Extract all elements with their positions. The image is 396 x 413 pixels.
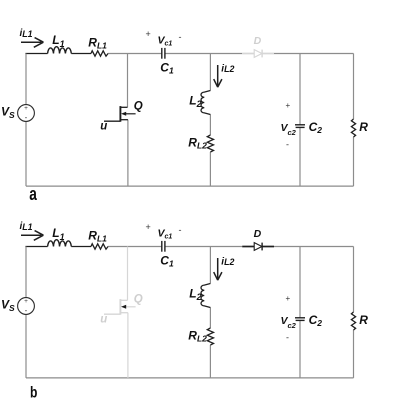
- svg-text:-: -: [286, 333, 289, 343]
- current arrow iL1 (circuit b): [21, 231, 43, 241]
- svg-text:-: -: [179, 225, 182, 235]
- resistor RL2 (circuit a): [207, 135, 213, 152]
- wire left rail lower (circuit a): [25, 122, 27, 187]
- current arrow iL1 (circuit a): [21, 38, 43, 48]
- svg-text:Q: Q: [134, 100, 143, 112]
- svg-text:R: R: [359, 120, 368, 134]
- svg-text:-: -: [25, 113, 28, 122]
- transistor Q (circuit a): [104, 106, 136, 122]
- wire L2 branch middle (circuit b): [209, 308, 211, 329]
- resistor R load (circuit a): [351, 119, 355, 137]
- svg-text:D: D: [254, 228, 262, 240]
- svg-text:-: -: [179, 32, 182, 42]
- voltage source VS (circuit a): [18, 105, 35, 123]
- diode D (circuit b): [242, 243, 274, 251]
- wire left rail upper (circuit b): [25, 247, 27, 298]
- svg-text:D: D: [254, 35, 262, 47]
- current arrow iL2 (circuit a): [214, 65, 222, 87]
- wire top rail segment 3 (circuit b): [108, 246, 162, 248]
- wire L2 branch upper (circuit a): [209, 54, 211, 91]
- svg-text:iL1: iL1: [20, 28, 33, 39]
- current arrow iL2 (circuit b): [214, 258, 222, 280]
- svg-text:Q: Q: [134, 293, 143, 305]
- wire top rail segment 2 lead L1 to RL1 (circuit b): [71, 246, 91, 248]
- svg-text:b: b: [30, 385, 38, 402]
- resistor R load (circuit b): [351, 312, 355, 330]
- voltage source VS (circuit b): [18, 298, 35, 316]
- wire top rail segment 3 (circuit a): [108, 53, 162, 55]
- wire C2 branch upper (circuit a): [299, 54, 301, 125]
- capacitor C2 (circuit b): [295, 318, 305, 321]
- resistor RL1 (circuit b): [91, 244, 108, 249]
- wire left rail upper (circuit a): [25, 54, 27, 105]
- svg-text:iL2: iL2: [221, 63, 234, 74]
- inductor L1 (circuit b): [48, 240, 72, 247]
- wire transistor branch lower (circuit b): [127, 313, 129, 378]
- wire top rail segment 5 (circuit a): [274, 53, 354, 55]
- wire top rail segment 1 lead to L1 (circuit a): [25, 53, 47, 55]
- wire transistor branch upper (circuit b): [127, 247, 129, 301]
- svg-text:-: -: [25, 306, 28, 315]
- svg-text:a: a: [29, 184, 37, 204]
- wire top rail segment 1 lead to L1 (circuit b): [25, 246, 47, 248]
- wire transistor branch upper (circuit a): [127, 54, 129, 108]
- wire right rail lower (circuit a): [353, 137, 355, 186]
- inductor L1 (circuit a): [48, 47, 72, 54]
- capacitor C1 (circuit b): [162, 241, 165, 252]
- capacitor C1 (circuit a): [162, 48, 165, 59]
- wire top rail segment 2 lead L1 to RL1 (circuit a): [71, 53, 91, 55]
- svg-text:+: +: [146, 29, 151, 39]
- wire C2 branch lower (circuit a): [299, 128, 301, 187]
- wire top rail segment 5 (circuit b): [274, 246, 354, 248]
- resistor RL1 (circuit a): [91, 51, 108, 56]
- svg-text:+: +: [146, 222, 151, 232]
- wire L2 branch middle (circuit a): [209, 115, 211, 136]
- wire L2 branch upper (circuit b): [209, 247, 211, 284]
- svg-text:+: +: [24, 298, 28, 305]
- wire L2 branch lower (circuit b): [209, 345, 211, 378]
- svg-text:-: -: [286, 140, 289, 150]
- wire C2 branch upper (circuit b): [299, 247, 301, 318]
- wire right rail upper (circuit a): [353, 54, 355, 120]
- svg-text:+: +: [24, 105, 28, 112]
- wire top rail segment 4 (circuit b): [165, 246, 242, 248]
- wire left rail lower (circuit b): [25, 315, 27, 378]
- wire right rail upper (circuit b): [353, 247, 355, 313]
- svg-text:iL2: iL2: [221, 256, 234, 267]
- wire C2 branch lower (circuit b): [299, 321, 301, 378]
- svg-text:u: u: [100, 314, 107, 326]
- svg-text:R: R: [359, 313, 368, 327]
- svg-text:+: +: [286, 101, 291, 110]
- wire L2 branch lower (circuit a): [209, 152, 211, 186]
- wire bottom rail (circuit b): [26, 377, 354, 379]
- inductor L2 (circuit a): [201, 91, 210, 115]
- inductor L2 (circuit b): [201, 284, 210, 308]
- svg-text:u: u: [100, 121, 107, 133]
- capacitor C2 (circuit a): [295, 125, 305, 128]
- resistor RL2 (circuit b): [207, 328, 213, 345]
- wire bottom rail (circuit a): [26, 185, 354, 187]
- svg-text:+: +: [286, 294, 291, 303]
- wire right rail lower (circuit b): [353, 330, 355, 378]
- svg-text:iL1: iL1: [20, 221, 33, 232]
- wire top rail segment 4 (circuit a): [165, 53, 242, 55]
- transistor Q (circuit b): [104, 299, 136, 315]
- diode D (circuit a): [242, 50, 274, 58]
- wire transistor branch lower (circuit a): [127, 120, 129, 186]
